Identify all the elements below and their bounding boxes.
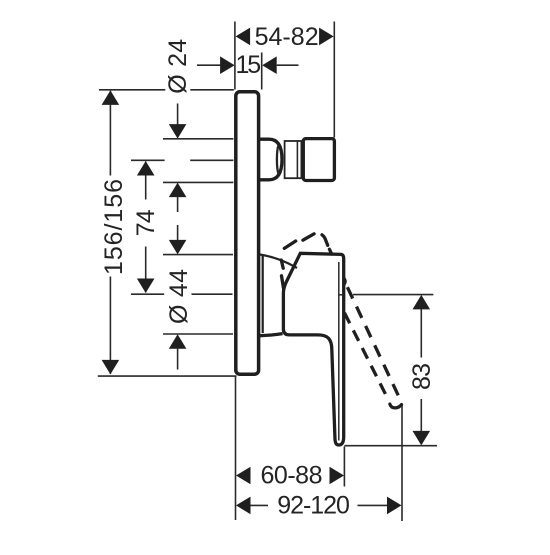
extension line nut top (dia 24) [163,138,233,140]
dimension 83 line lower segment [420,399,422,444]
dashed lever outer edge (swung position) [347,287,399,398]
dimension 54-82 left arrow [236,28,251,46]
plate top extension line left part [99,89,165,91]
dimension 83 upper arrow [413,295,431,310]
svg-text:Ø 44: Ø 44 [165,269,193,324]
dimension 15 right shaft [277,64,299,66]
sleeve dome bump right of lever [344,278,346,286]
nipple flange cone [259,139,282,180]
grip seam tick at 83 line [339,294,344,296]
svg-text:83: 83 [408,363,436,390]
dimension 83 line upper segment [420,296,422,358]
dimension 60-88 right arrow [330,467,345,485]
dashed lever base dash 2 [282,276,284,288]
dimension 74 upper arrow [137,161,155,176]
nipple center line left segment [131,159,165,161]
dimension 92-120 left arrow [236,497,251,515]
grip inner thin line [338,262,340,441]
svg-text:92-120: 92-120 [277,492,350,520]
dimension 156/156 lower arrow [102,360,120,375]
dia 24 lower arrow [169,183,187,198]
dia 44 upper arrow shaft [177,225,179,241]
extension line cartridge top (dia 44) [163,254,233,256]
plate top extension line right part [190,89,234,91]
dimension 15 left shaft [197,64,221,66]
dashed lever tip cap [390,404,402,408]
extension line nut bottom (dia 24) [163,181,233,183]
extension line left of 54-82 [234,22,236,90]
extension line right of 15 [261,53,263,90]
nipple neck concave curve [277,145,279,174]
dia 24 upper arrow shaft [177,104,179,126]
dashed upper lever edge dash 2 [303,234,314,240]
dashed upper lever corner dash [322,235,328,246]
dia 24 upper arrow [169,124,187,139]
nipple center line right segment [190,159,233,161]
83 bottom extension line [344,445,437,447]
dimension 74 line lower segment [145,247,147,293]
svg-text:54-82: 54-82 [255,23,319,51]
dimension 156/156 upper arrow [102,90,120,105]
extension line below handle (60-88 right) [343,447,345,487]
dimension 156/156 line upper segment [109,91,111,176]
sleeve back edge on plate [262,256,264,333]
dashed upper lever edge dash 1 [284,241,295,248]
wall plate [236,92,259,374]
dia 24 lower arrow shaft [177,197,179,212]
svg-text:Ø 24: Ø 24 [164,39,192,94]
dashed lever crossing dash over top edge [329,249,331,254]
dashed lever inner edge (swung position) [344,313,387,399]
lower left extension line [235,377,237,521]
dimension 60-88 left arrow [236,467,251,485]
dimension 15 left arrow [220,56,235,74]
nipple nut [303,139,334,181]
dia 44 lower arrow [169,334,187,349]
dimension 15 right arrow [262,56,277,74]
plate bottom extension line [98,375,237,377]
dimension 83 lower arrow [413,431,431,446]
handle lever outline [283,253,343,445]
sleeve bottom edge [260,334,283,336]
dimension 92-120 left stub [251,504,269,506]
svg-text:60-88: 60-88 [261,461,323,489]
dimension 74 lower arrow [137,279,155,294]
dimension 74 line upper segment [145,162,147,200]
cartridge center line left segment [131,293,164,295]
svg-text:15: 15 [235,51,261,79]
nipple middle section [285,141,302,178]
dia 44 lower arrow shaft [177,348,179,369]
dimension 156/156 line lower segment [109,277,111,374]
dimension 54-82 right arrow [319,28,334,46]
dimension 92-120 right shaft [358,504,388,506]
dashed lever base dash 1 [281,260,283,268]
cartridge center line right segment [192,293,233,295]
sleeve top edge [260,255,297,269]
dia 44 upper arrow [169,240,187,255]
83 top extension line [353,294,433,296]
extension line below dashed lever tip (92-120 right) [401,405,403,521]
nipple middle section inner line [296,141,298,178]
dimension 92-120 right arrow [387,497,402,515]
svg-text:74: 74 [132,209,160,236]
extension line cartridge bottom (dia 44) [163,333,233,335]
extension line right of 54-82 [333,22,335,138]
svg-text:156/156: 156/156 [100,179,128,275]
